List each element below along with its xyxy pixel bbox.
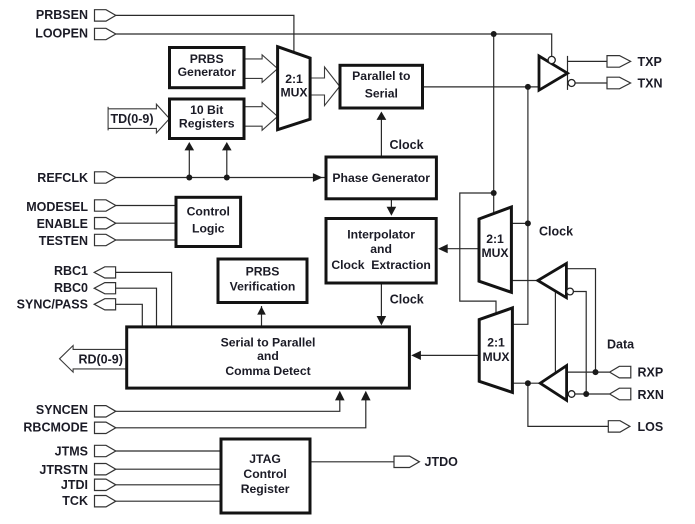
svg-text:LOOPEN: LOOPEN — [35, 27, 88, 41]
svg-text:REFCLK: REFCLK — [37, 171, 88, 185]
svg-text:PRBSEN: PRBSEN — [36, 8, 88, 22]
svg-text:MUX: MUX — [482, 350, 510, 364]
svg-text:JTAG: JTAG — [249, 452, 281, 466]
svg-text:Registers: Registers — [179, 116, 235, 130]
svg-text:Logic: Logic — [192, 221, 225, 235]
svg-text:Control: Control — [243, 467, 286, 481]
svg-text:TESTEN: TESTEN — [39, 234, 88, 248]
svg-text:RBC1: RBC1 — [54, 264, 88, 278]
svg-text:RXN: RXN — [638, 388, 664, 402]
svg-text:ENABLE: ENABLE — [37, 217, 88, 231]
svg-text:MODESEL: MODESEL — [26, 200, 88, 214]
svg-text:Parallel to: Parallel to — [352, 69, 410, 83]
svg-text:PRBS: PRBS — [246, 265, 280, 279]
svg-text:LOS: LOS — [638, 420, 664, 434]
svg-text:MUX: MUX — [280, 86, 308, 100]
svg-text:TXN: TXN — [638, 76, 663, 90]
svg-text:Clock: Clock — [390, 292, 424, 306]
svg-text:and: and — [370, 242, 392, 256]
svg-text:Register: Register — [241, 482, 290, 496]
svg-text:SYNC/PASS: SYNC/PASS — [17, 298, 88, 312]
svg-text:MUX: MUX — [481, 246, 509, 260]
svg-text:Clock: Clock — [539, 224, 573, 238]
svg-text:2:1: 2:1 — [285, 72, 303, 86]
svg-text:Comma Detect: Comma Detect — [225, 364, 310, 378]
svg-text:Clock: Clock — [390, 138, 424, 152]
svg-text:RXP: RXP — [638, 366, 664, 380]
svg-text:TXP: TXP — [638, 55, 662, 69]
svg-text:RBCMODE: RBCMODE — [23, 420, 88, 434]
svg-text:and: and — [257, 349, 279, 363]
svg-text:JTDO: JTDO — [425, 455, 459, 469]
svg-text:Clock Extraction: Clock Extraction — [331, 258, 431, 272]
svg-text:JTDI: JTDI — [61, 478, 88, 492]
svg-text:RD(0-9): RD(0-9) — [78, 352, 122, 366]
svg-text:10 Bit: 10 Bit — [190, 103, 223, 117]
svg-text:Phase Generator: Phase Generator — [332, 171, 430, 185]
svg-text:TCK: TCK — [62, 494, 88, 508]
svg-text:Generator: Generator — [178, 65, 237, 79]
svg-text:JTRSTN: JTRSTN — [39, 463, 88, 477]
svg-text:RBC0: RBC0 — [54, 281, 88, 295]
svg-text:2:1: 2:1 — [487, 336, 505, 350]
svg-text:TD(0-9): TD(0-9) — [110, 112, 153, 126]
svg-text:SYNCEN: SYNCEN — [36, 403, 88, 417]
svg-text:Interpolator: Interpolator — [347, 228, 415, 242]
svg-text:2:1: 2:1 — [486, 232, 504, 246]
svg-text:Data: Data — [607, 337, 635, 351]
svg-text:Control: Control — [187, 205, 230, 219]
svg-text:Verification: Verification — [230, 279, 296, 293]
svg-text:Serial to Parallel: Serial to Parallel — [221, 335, 316, 349]
svg-text:PRBS: PRBS — [190, 52, 224, 66]
svg-text:JTMS: JTMS — [55, 444, 88, 458]
svg-text:Serial: Serial — [365, 87, 398, 101]
